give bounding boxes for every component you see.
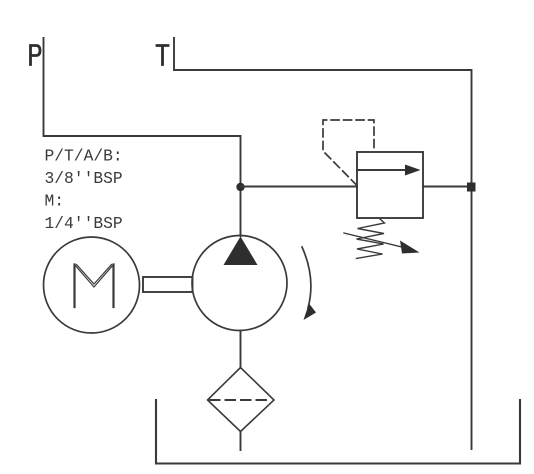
- wire T line: [174, 38, 472, 449]
- wire valve-to-T: [423, 186, 472, 188]
- wire P line: [44, 38, 241, 236]
- wire filter-to-tank: [240, 432, 242, 451]
- spring adjust arrow: [344, 233, 420, 254]
- valve flow arrow: [357, 165, 421, 176]
- port label T: [157, 46, 168, 65]
- motor M1 circle: [44, 237, 140, 333]
- svg-text:1/4''BSP: 1/4''BSP: [45, 214, 123, 233]
- rotation arrow: [302, 247, 316, 320]
- svg-text:3/8''BSP: 3/8''BSP: [45, 169, 123, 188]
- node junction dot: [236, 183, 244, 191]
- filter F1: [208, 368, 275, 432]
- node T junction square: [467, 183, 476, 192]
- wire pump-to-filter: [240, 331, 242, 369]
- spring (adjustable): [357, 219, 385, 259]
- pump P1 circle: [192, 236, 287, 331]
- wire pump-to-valve: [241, 186, 358, 188]
- pilot line (dashed): [323, 120, 374, 186]
- relief valve V1 body: [357, 152, 423, 218]
- tank: [156, 400, 520, 464]
- port label P: [31, 46, 41, 65]
- motor letter M: [75, 265, 114, 308]
- pump flow triangle: [224, 237, 258, 266]
- shaft coupling: [143, 277, 193, 292]
- svg-text:P/T/A/B:: P/T/A/B:: [45, 147, 123, 166]
- svg-text:M:: M:: [45, 192, 65, 211]
